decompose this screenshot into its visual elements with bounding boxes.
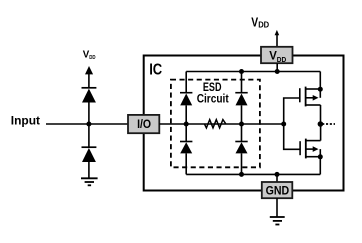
resistor [204, 120, 225, 128]
svg-text:DD: DD [277, 57, 286, 64]
wire: NMOS drain to output node [320, 124, 322, 141]
node: VDD rail / right diode branch [239, 69, 244, 74]
diode: inner lower-left ESD diode [180, 124, 192, 174]
wire: PMOS drain to output node [320, 105, 322, 124]
GND pad [262, 182, 293, 198]
svg-text:GND: GND [266, 184, 290, 197]
node: input junction [86, 122, 91, 127]
node: NMOS source/body tie [318, 154, 323, 159]
wire: internal ground rail [186, 173, 320, 175]
node: mid line / left diode branch [184, 122, 189, 127]
ground (bottom) [270, 217, 285, 225]
VDD label (left) [83, 49, 96, 61]
transistor: NMOS (pull-down MOSFET) [300, 139, 321, 159]
ESD Circuit label [197, 81, 229, 105]
power VDD arrow (left) [85, 66, 93, 88]
VDD pad [261, 47, 293, 64]
svg-text:DD: DD [89, 55, 95, 61]
I/O pad [128, 115, 159, 133]
svg-text:DD: DD [258, 21, 269, 30]
wire: NMOS body tie [319, 149, 321, 157]
node: gate junction on mid line [281, 122, 286, 127]
power VDD arrow (top) [275, 30, 280, 47]
diode: inner lower-right ESD diode [235, 124, 247, 174]
node: mid line / right diode branch [239, 122, 244, 127]
node: ground rail / right diode branch [239, 172, 244, 177]
svg-text:Circuit: Circuit [197, 93, 229, 106]
wire: gate riser to PMOS [284, 98, 300, 124]
svg-text:I/O: I/O [137, 119, 151, 131]
wire: output dotted continuation [322, 123, 335, 125]
node: output node [318, 121, 324, 127]
wire: ground rail to GND pad [276, 174, 278, 182]
ESD circuit dashed box [171, 80, 260, 168]
IC label [149, 61, 162, 78]
diode: inner upper-left ESD diode [180, 72, 192, 125]
wire: NMOS source to ground rail [319, 157, 321, 175]
IC boundary box [144, 56, 344, 191]
VDD label (top) [251, 15, 269, 29]
wire: PMOS source/body to VDD rail [319, 72, 321, 98]
diode: left upper ESD diode [82, 88, 97, 124]
node: PMOS source/body tie [318, 87, 323, 92]
wire: mid line from I/O pad to gate node [159, 123, 283, 125]
ground (left) [81, 178, 98, 185]
diode: left lower ESD diode [82, 124, 97, 178]
svg-text:V: V [269, 48, 277, 62]
wire: VDD pad to internal VDD rail [276, 63, 278, 71]
node: ground rail / GND pad [275, 172, 280, 177]
wire: gate dropper to NMOS [284, 124, 300, 149]
wire: input line to I/O pad [46, 123, 129, 125]
diode: inner upper-right ESD diode [235, 72, 247, 125]
wire: internal VDD rail [186, 71, 320, 73]
svg-text:Input: Input [11, 114, 40, 127]
transistor: PMOS (pull-up MOSFET) [300, 87, 321, 107]
wire: GND pad to ground symbol [276, 198, 278, 217]
svg-text:IC: IC [149, 61, 162, 78]
Input label [11, 114, 40, 127]
node: VDD rail / VDD pad [275, 69, 280, 74]
